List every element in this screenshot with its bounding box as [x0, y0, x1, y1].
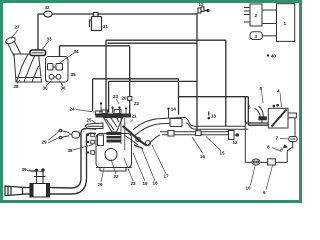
oval fitting 10	[252, 159, 260, 165]
carburetor venturi funnel	[104, 118, 123, 133]
left engine fittings dots and squares	[87, 133, 95, 154]
svg-text:2: 2	[255, 13, 258, 18]
leader lines	[11, 30, 288, 190]
carburetor top plate	[96, 110, 132, 118]
wire H y96.7	[179, 96, 249, 98]
svg-text:30: 30	[43, 86, 49, 91]
svg-text:10: 10	[246, 186, 252, 191]
svg-text:23: 23	[131, 181, 137, 186]
svg-text:17: 17	[164, 174, 170, 179]
svg-text:1: 1	[284, 21, 287, 26]
air check valve 29 cluster	[59, 129, 81, 139]
svg-text:13: 13	[211, 114, 217, 119]
top right connector box 2	[244, 4, 277, 26]
node 13 dot	[208, 117, 211, 120]
wire Hb	[60, 45, 130, 47]
vacuum bell 6	[255, 107, 267, 124]
exhaust riser pipe	[72, 128, 96, 194]
wire H2	[108, 42, 198, 44]
svg-text:25: 25	[87, 118, 93, 123]
reservoir bottle 27	[5, 36, 42, 82]
svg-text:22: 22	[114, 174, 120, 179]
svg-text:19: 19	[143, 181, 149, 186]
wire drop to air horn	[37, 14, 39, 50]
svg-text:24: 24	[70, 107, 76, 112]
svg-text:31: 31	[103, 24, 109, 29]
svg-text:18: 18	[153, 181, 159, 186]
svg-text:16: 16	[200, 154, 206, 159]
wire vertical x178.5	[178, 79, 180, 115]
svg-text:40: 40	[271, 54, 277, 59]
wire vertical x129.7	[129, 46, 131, 115]
svg-text:29: 29	[42, 140, 48, 145]
svg-text:4: 4	[277, 89, 280, 94]
svg-text:34: 34	[74, 49, 80, 54]
square fitting 9	[268, 159, 276, 165]
wire from notch down to comp 7	[294, 118, 296, 137]
svg-text:38: 38	[68, 148, 74, 153]
svg-text:35: 35	[71, 72, 77, 77]
svg-text:33: 33	[47, 37, 53, 42]
svg-text:7: 7	[276, 136, 279, 141]
wire pair into air door box	[245, 122, 268, 124]
lower tube b	[160, 132, 229, 135]
solenoid block 34 35	[46, 57, 69, 83]
carb left snout	[85, 123, 103, 129]
connector at hose end	[95, 111, 100, 115]
EGR tube end connector 12	[229, 131, 239, 140]
svg-text:21: 21	[132, 114, 138, 119]
wire H3a	[93, 78, 179, 80]
carb port dots	[100, 102, 127, 113]
border frame	[0, 0, 302, 203]
svg-text:8: 8	[267, 145, 270, 150]
relay box 3	[250, 32, 277, 40]
svg-text:39: 39	[22, 167, 28, 172]
EGR valve 14	[169, 110, 183, 127]
svg-text:22: 22	[134, 101, 140, 106]
svg-text:20: 20	[122, 96, 128, 101]
svg-text:23: 23	[113, 94, 119, 99]
wire vertical pair x245 x248	[244, 97, 246, 123]
wire vertical x197	[196, 13, 198, 132]
svg-text:9: 9	[263, 190, 266, 195]
svg-text:11: 11	[199, 2, 204, 7]
bottom right loop with 9 10	[245, 123, 292, 162]
ECU box 1	[277, 4, 295, 42]
svg-text:15: 15	[220, 151, 226, 156]
exhaust front pipe flange	[5, 186, 23, 196]
intake manifold hump	[133, 118, 248, 136]
svg-text:6: 6	[248, 105, 251, 110]
float bowl stripes	[107, 132, 122, 143]
wire vertical x106	[105, 40, 107, 113]
wire vertical x92.6	[92, 79, 94, 111]
svg-text:26: 26	[98, 182, 104, 187]
wire block riser	[59, 46, 61, 57]
svg-text:32: 32	[45, 5, 51, 10]
air door box 4 5	[268, 104, 296, 128]
inline fittings on tube b	[168, 131, 201, 137]
wire stub at node 13	[208, 112, 210, 116]
wire H1	[106, 39, 226, 41]
air horn on bottle 33	[30, 50, 46, 56]
grommet 32	[44, 11, 52, 17]
wire top horizontal	[38, 13, 197, 15]
arrow A	[283, 144, 288, 148]
muffler 39	[30, 169, 50, 197]
svg-text:27: 27	[15, 25, 21, 30]
wire vertical x108.6	[108, 81, 110, 112]
engine block	[96, 134, 132, 172]
valve 11	[198, 7, 209, 13]
svg-text:3: 3	[255, 34, 258, 39]
exhaust pipe sections	[23, 188, 73, 195]
svg-text:28: 28	[14, 84, 20, 89]
node 40 dot	[267, 54, 269, 56]
svg-text:36: 36	[61, 86, 67, 91]
wire H3b	[109, 80, 197, 82]
component 7	[289, 137, 297, 142]
canister 31	[90, 13, 102, 31]
inline connector 20 on hose	[128, 97, 132, 101]
manifold swoosh	[121, 118, 160, 150]
svg-text:5: 5	[260, 86, 263, 91]
node 14 dot	[167, 108, 169, 110]
svg-text:14: 14	[171, 107, 177, 112]
wire vertical x225.8	[225, 40, 227, 126]
svg-text:12: 12	[233, 140, 239, 145]
